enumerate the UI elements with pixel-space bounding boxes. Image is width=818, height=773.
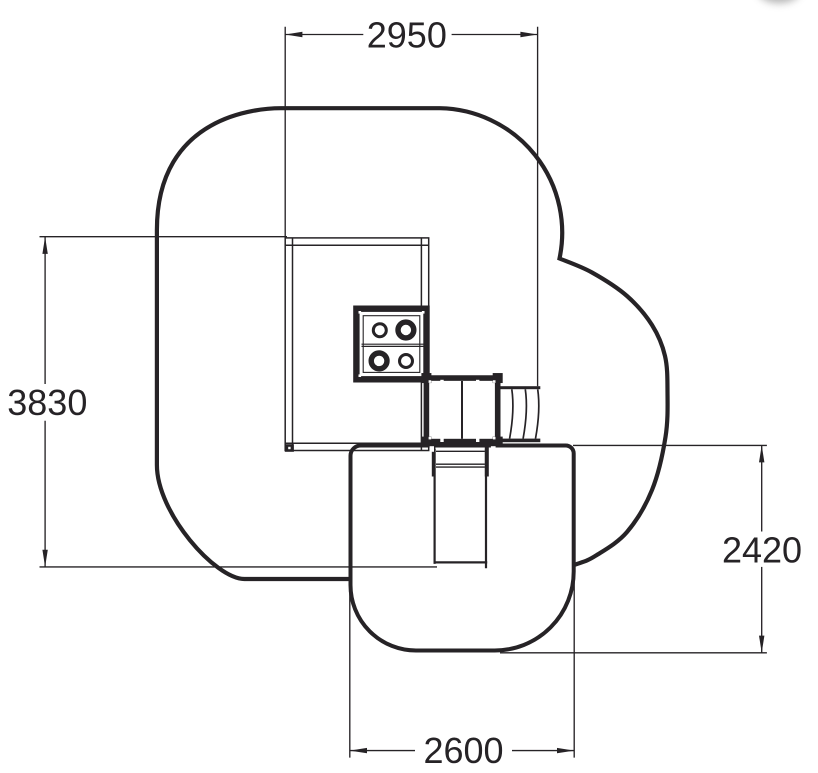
svg-text:2600: 2600 [423, 730, 503, 771]
svg-text:2950: 2950 [367, 14, 447, 55]
svg-text:3830: 3830 [7, 382, 87, 423]
svg-text:2420: 2420 [722, 529, 802, 570]
